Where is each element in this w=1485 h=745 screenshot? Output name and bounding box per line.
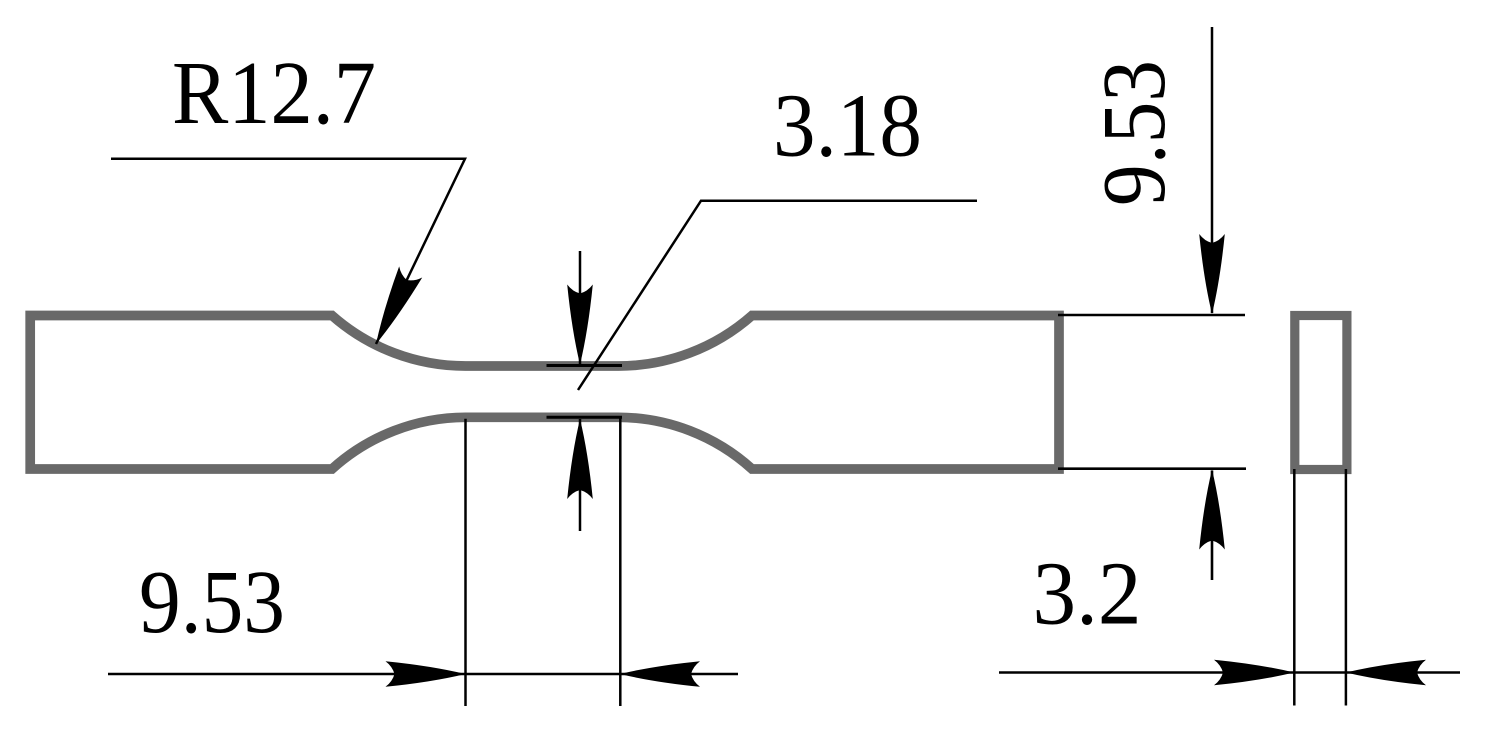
svg-text:9.53: 9.53 <box>1085 60 1184 206</box>
9.53 gauge length right extension line <box>619 417 622 706</box>
9.53 height lower arrowhead (up) <box>1199 470 1225 550</box>
3.18 upper dimension line <box>579 251 582 364</box>
3.18 lower arrowhead (up) <box>567 419 593 499</box>
3.18 upper arrowhead (down) <box>567 285 593 365</box>
3.18 lower dimension line <box>579 419 582 531</box>
9.53 height dimension line upper <box>1211 27 1214 313</box>
9.53 gauge length dimension line <box>108 673 738 676</box>
3.2 thickness dimension line <box>999 671 1460 674</box>
9.53 gauge length right arrowhead (left-pointing) <box>620 661 700 687</box>
svg-text:3.18: 3.18 <box>773 77 922 176</box>
9.53 height bottom extension line <box>1058 467 1246 470</box>
3.2 thickness left extension line <box>1293 469 1296 706</box>
specimen front view outline (dogbone) <box>30 316 1059 470</box>
9.53 height dimension line lower <box>1211 471 1214 581</box>
side view rectangle <box>1295 316 1347 470</box>
9.53 height upper arrowhead (down) <box>1199 234 1225 314</box>
3.2 thickness left arrowhead (right-pointing) <box>1214 660 1294 686</box>
svg-text:3.2: 3.2 <box>1033 545 1142 644</box>
R12.7 leader arrowhead <box>364 266 422 349</box>
R12.7 leader line <box>111 159 465 344</box>
9.53 gauge length left extension line <box>464 419 467 706</box>
3.18 top extension tick <box>547 364 623 367</box>
9.53 height top extension line <box>1058 314 1245 317</box>
3.2 thickness right arrowhead (left-pointing) <box>1346 660 1426 686</box>
9.53 gauge length left arrowhead (right-pointing) <box>386 661 466 687</box>
svg-text:R12.7: R12.7 <box>172 44 376 143</box>
3.2 thickness right extension line <box>1345 469 1348 706</box>
svg-text:9.53: 9.53 <box>139 553 285 652</box>
3.18 bottom extension tick <box>547 416 623 419</box>
3.18 leader line <box>578 201 977 390</box>
